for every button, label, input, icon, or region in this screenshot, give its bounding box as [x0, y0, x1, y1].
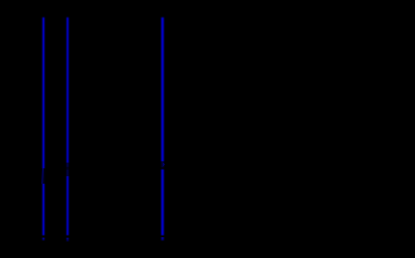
terminal dash of L1	[41, 237, 46, 241]
dim event on L2	[65, 163, 71, 177]
dim kink event on L1	[41, 168, 47, 183]
light streak L1	[41, 16, 46, 236]
terminal dash of L2	[65, 237, 70, 242]
light streak L3	[160, 16, 165, 236]
terminal dash of L3	[160, 237, 165, 242]
dim event on L3 with right bulge	[160, 161, 166, 169]
light streak L2	[65, 16, 70, 236]
